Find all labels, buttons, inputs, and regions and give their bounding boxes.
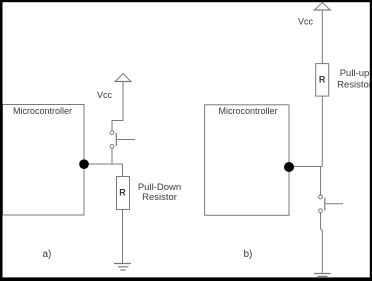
node B junction dot [284, 162, 294, 172]
svg-text:b): b) [244, 249, 253, 260]
switch S1 (pushbutton) [110, 131, 135, 149]
wire resistor R (a) to ground [122, 210, 124, 264]
wire node A to resistor R (a) [84, 164, 123, 177]
svg-text:Vcc: Vcc [298, 17, 314, 27]
svg-text:R: R [119, 188, 126, 198]
wire node B to switch S2 [289, 167, 322, 196]
label Pull-Down Resistor [138, 182, 181, 203]
Vcc power symbol (b) [314, 3, 332, 11]
Vcc power symbol (a) [114, 74, 131, 82]
wire switch S1 to node A [111, 148, 113, 164]
svg-text:Microcontroller: Microcontroller [218, 106, 277, 116]
svg-text:a): a) [43, 249, 52, 260]
svg-text:Vcc: Vcc [97, 90, 113, 100]
wire Vcc to switch S1 [112, 82, 123, 131]
svg-text:R: R [319, 75, 326, 85]
microcontroller U1 [3, 105, 85, 216]
ground (b) [314, 274, 331, 277]
switch S2 (pushbutton) [319, 195, 343, 213]
wire Vcc to resistor R (b) [321, 11, 323, 64]
ground (a) [114, 264, 131, 271]
wire switch S2 to ground [321, 213, 323, 274]
microcontroller U2 [205, 105, 289, 216]
label Pull-up Resistor [337, 68, 372, 91]
resistor R (b) [316, 64, 329, 97]
svg-text:Pull-up: Pull-up [340, 68, 370, 79]
resistor R (a) [117, 177, 130, 210]
wire resistor R (b) to node B [321, 96, 323, 166]
svg-text:Resistor: Resistor [142, 192, 177, 203]
svg-text:Resistor: Resistor [337, 80, 372, 91]
node A junction dot [79, 159, 89, 169]
svg-text:Microcontroller: Microcontroller [13, 106, 72, 116]
